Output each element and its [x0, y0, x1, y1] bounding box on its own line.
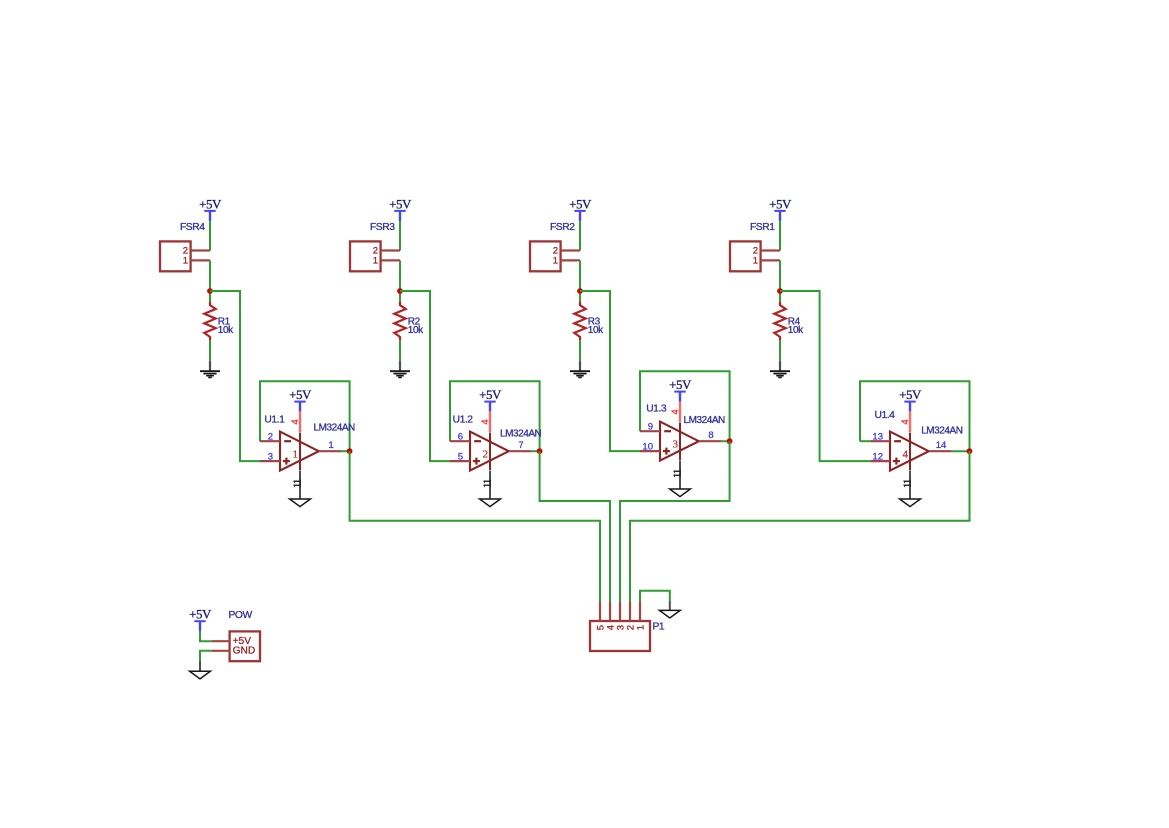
- op-amp U1.3 pin 9 stub: [640, 430, 660, 432]
- svg-text:P1: P1: [653, 622, 665, 633]
- svg-text:FSR2: FSR2: [550, 222, 575, 233]
- svg-text:GND: GND: [233, 646, 256, 657]
- op-amp U1.2 plus sign: [473, 460, 480, 462]
- node junction FSR2/R3: [577, 288, 583, 294]
- FSR sensor FSR4: [160, 241, 191, 271]
- svg-text:4: 4: [902, 448, 908, 460]
- wire R3 to ground: [579, 340, 581, 361]
- svg-text:+5V: +5V: [289, 387, 312, 402]
- svg-text:+5V: +5V: [769, 196, 792, 211]
- svg-text:+5V: +5V: [899, 387, 922, 402]
- POW pin GND stub: [211, 650, 229, 652]
- op-amp U1.1 pin 11 (V-) line: [299, 471, 301, 499]
- op-amp U1.3 plus sign: [663, 450, 670, 452]
- op-amp U1.4 pin 4 (V+) line: [909, 411, 911, 432]
- svg-text:LM324AN: LM324AN: [684, 415, 726, 426]
- FSR3 pin 2 stub: [381, 249, 400, 251]
- wire feedback loop U1.3: [640, 371, 730, 441]
- FSR3 pin 1 stub: [381, 259, 400, 261]
- wire R2 to ground: [399, 340, 401, 361]
- connector P1 pin 1 stub: [639, 602, 641, 621]
- svg-text:1: 1: [553, 255, 558, 266]
- svg-text:+5V: +5V: [189, 607, 212, 622]
- op-amp U1.3 internal supply line: [679, 423, 681, 461]
- ground earth symbol (below R2): [399, 361, 401, 371]
- svg-text:FSR3: FSR3: [370, 222, 395, 233]
- op-amp U1.4 pin 12 stub: [870, 460, 890, 462]
- op-amp U1.3 pin 4 (V+) line: [679, 401, 681, 422]
- svg-text:14: 14: [936, 440, 947, 451]
- wire U1.4 -input green: [860, 440, 870, 442]
- op-amp U1.4 pin 13 stub: [870, 440, 890, 442]
- op-amp U1.3 minus sign: [664, 430, 671, 432]
- ground GND symbol (below U1.4): [900, 499, 921, 507]
- wire R1 to ground: [209, 340, 211, 361]
- svg-text:4: 4: [900, 419, 911, 424]
- node junction FSR4/R1: [207, 288, 213, 294]
- svg-text:3: 3: [672, 438, 678, 450]
- svg-text:6: 6: [458, 432, 463, 443]
- op-amp U1.2 output pin stub: [509, 450, 532, 452]
- svg-text:+5V: +5V: [669, 377, 692, 392]
- op-amp U1.2 pin 4 (V+) line: [489, 411, 491, 432]
- FSR sensor FSR3: [350, 241, 381, 271]
- wire FSR1 junction to U1.4 +input: [780, 291, 870, 461]
- op-amp U1.3 triangle: [660, 422, 699, 461]
- op-amp U1.1 pin 4 (V+) line: [299, 411, 301, 432]
- op-amp U1.4 internal supply line: [909, 433, 911, 471]
- svg-text:11: 11: [293, 479, 304, 488]
- svg-text:+5V: +5V: [389, 196, 412, 211]
- connector P1 pin 5 stub: [599, 602, 601, 621]
- op-amp U1.4 plus sign: [893, 460, 900, 462]
- wire FSR4 +5V to pin2: [209, 221, 211, 251]
- wire FSR2 junction to U1.3 +input: [580, 291, 640, 451]
- wire FSR2 pin1 to resistor: [579, 260, 581, 302]
- wire FSR4 pin1 to resistor: [209, 260, 211, 302]
- svg-text:7: 7: [518, 440, 523, 451]
- svg-text:+5V: +5V: [569, 196, 592, 211]
- ground earth symbol (below R3): [579, 361, 581, 371]
- FSR sensor FSR1: [730, 241, 761, 271]
- op-amp U1.2 minus sign: [474, 440, 481, 442]
- op-amp U1.4 pin 11 (V-) line: [909, 471, 911, 499]
- op-amp U1.4 output pin stub: [929, 450, 952, 452]
- wire U1.3 output to P1: [620, 441, 730, 602]
- resistor R3 10k: [574, 302, 585, 341]
- svg-text:1: 1: [753, 255, 758, 266]
- wire R4 to ground: [779, 340, 781, 361]
- ground GND symbol (P1): [659, 610, 680, 618]
- POW pin +5V stub: [211, 640, 229, 642]
- svg-text:1: 1: [373, 255, 378, 266]
- svg-text:10k: 10k: [408, 325, 424, 336]
- svg-text:12: 12: [872, 452, 883, 463]
- FSR sensor FSR2: [530, 241, 561, 271]
- svg-text:+5V: +5V: [479, 387, 502, 402]
- svg-text:FSR1: FSR1: [750, 222, 775, 233]
- wire FSR1 +5V to pin2: [779, 221, 781, 251]
- op-amp U1.2 pin 5 stub: [450, 460, 470, 462]
- svg-text:LM324AN: LM324AN: [500, 428, 542, 439]
- wire U1.2 output to P1: [540, 451, 610, 602]
- op-amp U1.1 internal supply line: [299, 433, 301, 471]
- op-amp U1.1 triangle: [280, 432, 319, 471]
- svg-text:4: 4: [480, 419, 491, 424]
- op-amp U1.4 minus sign: [894, 440, 901, 442]
- svg-text:FSR4: FSR4: [180, 222, 205, 233]
- svg-text:10: 10: [642, 442, 653, 453]
- op-amp U1.1 minus sign: [284, 440, 291, 442]
- svg-text:11: 11: [903, 479, 914, 488]
- svg-text:10k: 10k: [218, 325, 234, 336]
- ground GND symbol (below U1.2): [480, 499, 501, 507]
- FSR1 pin 1 stub: [761, 259, 780, 261]
- wire U1.4 output to P1: [630, 451, 970, 602]
- FSR1 pin 2 stub: [761, 249, 780, 251]
- wire P1 pin1 to ground: [640, 591, 670, 602]
- svg-text:U1.1: U1.1: [264, 415, 285, 426]
- wire FSR4 junction to U1.1 +input: [210, 291, 260, 461]
- svg-text:2: 2: [482, 448, 488, 460]
- svg-text:LM324AN: LM324AN: [314, 423, 356, 434]
- ground stem at P1: [669, 601, 671, 610]
- wire FSR3 +5V to pin2: [399, 221, 401, 251]
- op-amp U1.2 triangle: [470, 432, 509, 471]
- op-amp U1.1 plus sign: [283, 460, 290, 462]
- node output U1.2: [537, 448, 543, 454]
- wire POW GND to ground: [200, 651, 211, 661]
- wire U1.1 output to node: [341, 450, 349, 452]
- connector P1 pin 3 stub: [619, 602, 621, 621]
- FSR2 pin 1 stub: [561, 259, 580, 261]
- op-amp U1.2 internal supply line: [489, 433, 491, 471]
- wire U1.4 output to node: [951, 450, 969, 452]
- resistor R1 10k: [204, 302, 215, 341]
- connector P1 box: [590, 621, 650, 651]
- svg-text:1: 1: [183, 255, 188, 266]
- wire U1.1 output to P1: [350, 451, 600, 602]
- node junction FSR1/R4: [777, 288, 783, 294]
- ground GND symbol (below U1.3): [670, 489, 691, 497]
- ground earth symbol (below R1): [209, 361, 211, 371]
- svg-text:U1.3: U1.3: [646, 404, 667, 415]
- connector POW box: [230, 631, 260, 661]
- svg-text:2: 2: [268, 432, 273, 443]
- wire feedback loop U1.2: [450, 381, 540, 451]
- svg-text:13: 13: [872, 432, 883, 443]
- svg-text:11: 11: [673, 469, 684, 478]
- wire FSR3 junction to U1.2 +input: [400, 291, 450, 461]
- node junction FSR3/R2: [397, 288, 403, 294]
- wire U1.2 output to node: [531, 450, 539, 452]
- op-amp U1.1 pin 2 stub: [260, 440, 280, 442]
- wire POW +5V: [200, 631, 211, 641]
- wire feedback loop U1.1: [260, 381, 350, 451]
- op-amp U1.2 pin 11 (V-) line: [489, 471, 491, 499]
- op-amp U1.3 pin 11 (V-) line: [679, 461, 681, 489]
- FSR4 pin 2 stub: [191, 249, 210, 251]
- FSR2 pin 2 stub: [561, 249, 580, 251]
- svg-text:4: 4: [670, 409, 681, 414]
- resistor R2 10k: [394, 302, 405, 341]
- node output U1.4: [967, 448, 973, 454]
- svg-text:LM324AN: LM324AN: [921, 425, 963, 436]
- op-amp U1.2 pin 6 stub: [450, 440, 470, 442]
- resistor R4 10k: [774, 302, 785, 341]
- svg-text:1: 1: [635, 625, 646, 630]
- ground GND symbol (POW): [190, 671, 211, 679]
- op-amp U1.3 pin 10 stub: [640, 450, 660, 452]
- op-amp U1.3 output pin stub: [699, 440, 722, 442]
- connector P1 pin 2 stub: [629, 602, 631, 621]
- node output U1.3: [727, 438, 733, 444]
- svg-text:+5V: +5V: [199, 196, 222, 211]
- svg-text:U1.2: U1.2: [453, 415, 474, 426]
- FSR4 pin 1 stub: [191, 259, 210, 261]
- svg-text:3: 3: [268, 452, 273, 463]
- svg-text:5: 5: [458, 452, 463, 463]
- ground GND symbol (below U1.1): [290, 499, 311, 507]
- op-amp U1.1 pin 3 stub: [260, 460, 280, 462]
- op-amp U1.1 output pin stub: [319, 450, 342, 452]
- svg-text:11: 11: [483, 479, 494, 488]
- op-amp U1.4 triangle: [890, 432, 929, 471]
- svg-text:9: 9: [648, 422, 653, 433]
- svg-text:10k: 10k: [788, 325, 804, 336]
- node output U1.1: [347, 448, 353, 454]
- ground earth symbol (below R4): [779, 361, 781, 371]
- wire U1.3 output to node: [721, 440, 729, 442]
- svg-text:1: 1: [328, 440, 333, 451]
- connector P1 pin 4 stub: [609, 602, 611, 621]
- wire FSR2 +5V to pin2: [579, 221, 581, 251]
- svg-text:4: 4: [290, 419, 301, 424]
- svg-text:1: 1: [292, 448, 298, 460]
- ground stem at POW: [199, 661, 201, 671]
- wire FSR1 pin1 to resistor: [779, 260, 781, 302]
- wire FSR3 pin1 to resistor: [399, 260, 401, 302]
- svg-text:10k: 10k: [588, 325, 604, 336]
- svg-text:8: 8: [708, 430, 713, 441]
- wire feedback loop U1.4: [860, 381, 970, 451]
- svg-text:U1.4: U1.4: [875, 410, 896, 421]
- svg-text:POW: POW: [229, 610, 253, 621]
